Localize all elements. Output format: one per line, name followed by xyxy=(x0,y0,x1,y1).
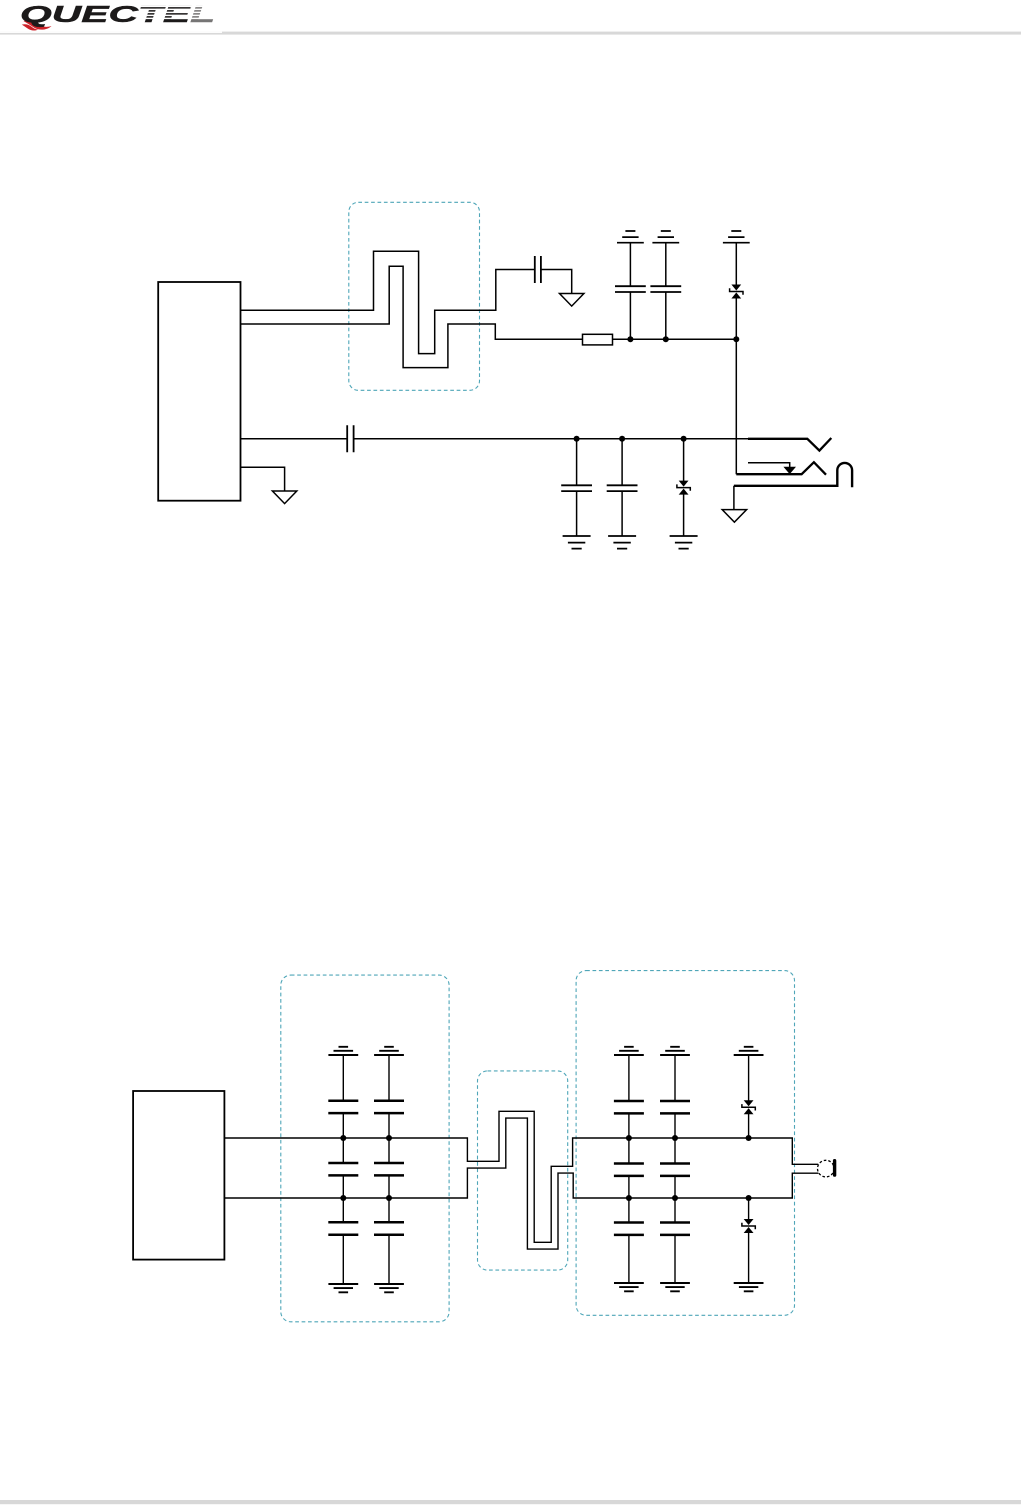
capacitor C5 xyxy=(561,485,592,491)
capacitor C15 xyxy=(614,1223,644,1235)
wire C9 to ground xyxy=(342,1235,344,1284)
Quectel logo wordmark xyxy=(20,1,218,31)
node junction dot xyxy=(672,1195,678,1201)
jack J1 ring contact xyxy=(736,462,826,475)
ground (up, above C10) xyxy=(374,1047,404,1055)
wire C11 to lower rail xyxy=(388,1175,390,1198)
wire C18 to ground xyxy=(674,1235,676,1283)
wire C3 to node xyxy=(665,292,667,339)
capacitor C11 xyxy=(374,1163,404,1175)
capacitor C4 (series on lower rail) xyxy=(347,425,353,452)
node junction dot xyxy=(672,1135,678,1141)
dashed filter box (right) xyxy=(576,971,794,1316)
node junction dot xyxy=(681,436,687,442)
capacitor C16 xyxy=(660,1101,690,1113)
header rule xyxy=(0,32,1021,35)
wire upper rail to C8 xyxy=(342,1138,344,1163)
capacitor C3 xyxy=(650,286,681,292)
wire ground to C3 xyxy=(665,243,667,287)
node junction dot xyxy=(626,1195,632,1201)
wire C2 to node xyxy=(629,292,631,339)
wire ground to D1 xyxy=(735,243,737,285)
capacitor C14 xyxy=(614,1164,644,1176)
wire D2 to ground xyxy=(683,494,685,536)
ground (down, below C12) xyxy=(374,1284,404,1292)
lower rail wire from module xyxy=(241,438,808,440)
wire upper rail to C14 xyxy=(628,1138,630,1164)
ground (down, below C6) xyxy=(608,536,636,549)
node junction dot xyxy=(746,1195,752,1201)
wire C16 to upper rail xyxy=(674,1113,676,1138)
node junction dot xyxy=(386,1135,392,1141)
ground (triangle, module) xyxy=(272,491,296,504)
ground (down, below C15) xyxy=(614,1283,644,1291)
wire ground to C13 xyxy=(628,1055,630,1101)
node junction dot xyxy=(340,1135,346,1141)
meander trace lower outline wire xyxy=(241,266,583,367)
wire node to D2 xyxy=(683,439,685,481)
capacitor C10 xyxy=(374,1101,404,1113)
node junction dot xyxy=(386,1195,392,1201)
module U1 (top schematic block) xyxy=(158,282,240,501)
meander trace upper outline wire xyxy=(241,251,535,353)
wire C15 to ground xyxy=(628,1235,630,1283)
wire R1 to jack branch xyxy=(613,339,737,474)
wire lower rail to C18 xyxy=(674,1198,676,1223)
ground (up, above D3) xyxy=(734,1047,764,1055)
jack J1 sleeve contact xyxy=(734,463,852,487)
capacitor C6 xyxy=(607,485,638,491)
wire node to C6 xyxy=(621,439,623,486)
node junction dot xyxy=(574,436,580,442)
ground (up, above D1) xyxy=(723,231,750,243)
svg-text:QUECTEL: QUECTEL xyxy=(20,1,215,27)
ground (down, below D4) xyxy=(734,1283,764,1291)
node junction dot xyxy=(619,436,625,442)
capacitor C7 xyxy=(328,1101,358,1113)
wire C1 to ground xyxy=(541,270,572,294)
module U2 (bottom schematic block) xyxy=(133,1091,224,1260)
ground (up, above C13) xyxy=(614,1047,644,1055)
jack J1 detect arm with arrow xyxy=(748,463,790,467)
capacitor C9 xyxy=(328,1222,358,1234)
node junction dot xyxy=(746,1135,752,1141)
TVS diode D2 xyxy=(677,481,690,495)
wire D3 to upper rail xyxy=(748,1114,750,1138)
TVS diode D1 xyxy=(730,285,743,299)
wire C13 to upper rail xyxy=(628,1113,630,1138)
wire ground to C7 xyxy=(342,1055,344,1101)
dashed meander box (middle) xyxy=(478,1071,568,1270)
wire upper rail to C17 xyxy=(674,1138,676,1164)
TVS diode D4 xyxy=(742,1219,755,1233)
wire ground to C16 xyxy=(674,1055,676,1101)
wire upper rail to C11 xyxy=(388,1138,390,1163)
wire lower rail to D4 xyxy=(748,1198,750,1219)
wire module ground stub xyxy=(241,467,285,491)
wire ground to C2 xyxy=(629,243,631,287)
wire C12 to ground xyxy=(388,1235,390,1284)
lower rail wire with meander lower outline xyxy=(224,1118,818,1249)
wire C6 to ground xyxy=(621,491,623,536)
plug P1 contact bar xyxy=(833,1159,836,1177)
wire lower rail to C12 xyxy=(388,1198,390,1222)
node junction dot xyxy=(627,336,633,342)
capacitor C12 xyxy=(374,1222,404,1234)
ground (up, above C2) xyxy=(617,231,644,243)
wire sleeve to ground xyxy=(733,486,735,510)
logo red swoosh xyxy=(22,20,52,30)
capacitor C8 xyxy=(328,1163,358,1175)
capacitor C18 xyxy=(660,1223,690,1235)
footer rule xyxy=(0,1500,1021,1504)
wire C7 to upper rail xyxy=(342,1113,344,1138)
wire C10 to upper rail xyxy=(388,1113,390,1138)
wire D4 to ground xyxy=(748,1233,750,1283)
ground (up, above C3) xyxy=(652,231,679,243)
ground (up, above C7) xyxy=(328,1047,358,1055)
ground (down, below C9) xyxy=(328,1284,358,1292)
capacitor C13 xyxy=(614,1101,644,1113)
wire C17 to lower rail xyxy=(674,1176,676,1198)
wire node to C5 xyxy=(576,439,578,486)
wire ground to C10 xyxy=(388,1055,390,1101)
capacitor C17 xyxy=(660,1164,690,1176)
capacitor C1 (series, to ground) xyxy=(535,256,541,283)
dashed filter box (left) xyxy=(281,975,449,1322)
ground (down, below D2) xyxy=(670,536,698,549)
node junction dot xyxy=(733,336,739,342)
TVS diode D3 xyxy=(742,1100,755,1114)
plug P1 (dashed circle) xyxy=(818,1160,835,1177)
jack J1 tip contact xyxy=(748,438,831,451)
ground (down, below C18) xyxy=(660,1283,690,1291)
wire C14 to lower rail xyxy=(628,1176,630,1198)
node junction dot xyxy=(340,1195,346,1201)
wire lower rail to C9 xyxy=(342,1198,344,1222)
ground (triangle, jack) xyxy=(722,510,746,523)
wire ground to D3 xyxy=(748,1055,750,1101)
ground (down, below C5) xyxy=(563,536,591,549)
upper rail wire with meander upper outline xyxy=(224,1111,818,1242)
node junction dot xyxy=(626,1135,632,1141)
ground (triangle, near C1) xyxy=(560,294,584,307)
wire D1 to node xyxy=(735,298,737,339)
resistor R1 xyxy=(583,334,613,345)
wire C5 to ground xyxy=(576,491,578,536)
node junction dot xyxy=(663,336,669,342)
capacitor C2 xyxy=(615,286,646,292)
dashed layout box (microstrip meander region) xyxy=(349,202,480,390)
ground (up, above C16) xyxy=(660,1047,690,1055)
wire C8 to lower rail xyxy=(342,1175,344,1198)
wire lower rail to C15 xyxy=(628,1198,630,1223)
